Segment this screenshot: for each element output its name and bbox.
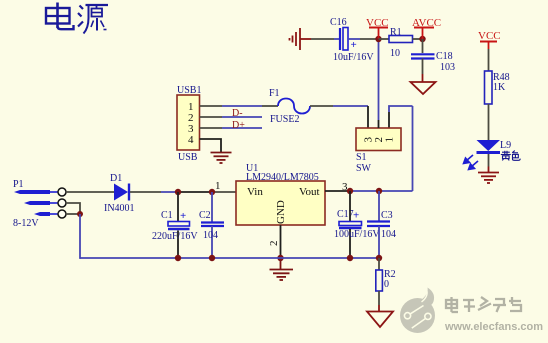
svg-text:VCC: VCC xyxy=(478,30,501,42)
svg-text:+: + xyxy=(180,210,186,222)
svg-text:C3: C3 xyxy=(381,210,393,221)
bottom rail xyxy=(80,257,381,259)
wire P1 pin3 to junction xyxy=(66,213,80,215)
Vout rail xyxy=(350,190,413,192)
svg-text:P1: P1 xyxy=(13,179,24,190)
switch S1 xyxy=(356,128,401,174)
svg-text:1: 1 xyxy=(384,137,396,143)
fuse F1 xyxy=(269,88,310,125)
wire C2 node to U1 pin1 xyxy=(212,191,236,193)
wire fuse to S1 pin3 corner xyxy=(310,105,333,107)
ground sideways left of C16 xyxy=(290,28,312,50)
svg-text:D+: D+ xyxy=(232,120,245,131)
resistor R2 xyxy=(376,258,396,312)
junction C3 R2 bottom xyxy=(376,255,382,261)
title 电源 xyxy=(46,3,108,34)
wire VCC node down to S1 pin2 xyxy=(378,39,380,120)
wire U1 pin2 down xyxy=(280,225,282,258)
svg-text:8-12V: 8-12V xyxy=(13,218,39,229)
resistor R48 xyxy=(485,71,510,104)
wire segment blue to C1 node xyxy=(161,191,178,193)
svg-text:L9: L9 xyxy=(500,140,511,151)
wire USB pin3 D+ xyxy=(200,127,223,129)
LED arrows xyxy=(464,155,479,170)
capacitor C2 xyxy=(199,192,224,258)
svg-text:SW: SW xyxy=(356,163,372,174)
wire down from P1 junction to bottom rail xyxy=(80,214,81,258)
svg-text:+: + xyxy=(353,210,359,222)
diode D1 xyxy=(104,173,135,214)
wire C1 node to C2 node xyxy=(178,191,212,193)
svg-text:Vout: Vout xyxy=(299,186,320,198)
svg-text:D-: D- xyxy=(232,108,243,119)
svg-text:C1: C1 xyxy=(161,210,173,221)
wire R48 to LED xyxy=(488,104,490,140)
svg-text:10uF/16V: 10uF/16V xyxy=(333,52,374,63)
wire USB pin2 D- xyxy=(200,116,223,118)
svg-text:10: 10 xyxy=(390,48,400,59)
ground USB pin4 xyxy=(211,153,232,164)
label yellow 黄色 xyxy=(501,151,520,161)
watermark logo circle xyxy=(400,288,435,334)
connector USB1 xyxy=(177,85,201,163)
svg-text:R1: R1 xyxy=(390,27,402,38)
svg-text:1K: 1K xyxy=(493,82,506,93)
svg-text:0: 0 xyxy=(384,279,389,290)
wire P1 pin1 to D1 xyxy=(66,191,114,193)
wire USB pin1 xyxy=(200,105,223,107)
svg-text:D1: D1 xyxy=(110,173,122,184)
wire down to S1 pin3 xyxy=(367,106,369,128)
watermark text 电子发烧友 xyxy=(446,297,521,312)
svg-text:2: 2 xyxy=(268,241,280,247)
capacitor C17 xyxy=(334,191,380,258)
svg-text:103: 103 xyxy=(440,62,455,73)
junction U1 GND on bottom rail xyxy=(277,255,283,261)
svg-text:4: 4 xyxy=(188,134,194,146)
wire S1 pin1 up and right xyxy=(388,112,390,128)
svg-text:C16: C16 xyxy=(330,17,347,28)
junction C1 bottom xyxy=(175,255,181,261)
power VCC right xyxy=(478,30,501,49)
svg-text:C18: C18 xyxy=(436,51,453,62)
junction C1 top xyxy=(175,189,181,195)
capacitor C18 xyxy=(411,39,455,82)
junction C17 top xyxy=(347,188,353,194)
capacitor C3 xyxy=(367,191,396,258)
svg-text:FUSE2: FUSE2 xyxy=(270,114,299,125)
wire ground to C16 xyxy=(311,38,334,40)
junction C3 top xyxy=(376,188,382,194)
wire D1 to C1 node xyxy=(130,191,161,193)
ground triangle under C18 xyxy=(411,82,436,94)
capacitor C16 xyxy=(330,17,374,63)
svg-text:C17: C17 xyxy=(337,209,354,220)
wire P1 pin2 to corner xyxy=(66,203,80,214)
junction C2 top xyxy=(209,189,215,195)
svg-text:www.elecfans.com: www.elecfans.com xyxy=(444,321,543,333)
svg-text:C2: C2 xyxy=(199,210,211,221)
ground under U1 xyxy=(270,258,294,280)
svg-text:F1: F1 xyxy=(269,88,280,99)
wire S1 pin1 down to Vout rail xyxy=(412,106,414,191)
capacitor C1 xyxy=(152,192,198,258)
wire C16 to VCC node xyxy=(348,38,360,40)
junction VCC node xyxy=(375,36,381,42)
svg-text:GND: GND xyxy=(275,200,287,224)
svg-text:Vin: Vin xyxy=(247,186,263,198)
junction C17 bottom xyxy=(347,255,353,261)
svg-text:100uF/16V: 100uF/16V xyxy=(334,229,380,240)
svg-text:S1: S1 xyxy=(356,152,367,163)
wire USB pin4 to ground xyxy=(200,139,222,153)
LED L9 xyxy=(477,140,512,173)
svg-text:IN4001: IN4001 xyxy=(104,203,135,214)
power VCC top xyxy=(366,17,389,39)
svg-text:220uF/16V: 220uF/16V xyxy=(152,231,198,242)
regulator U1 xyxy=(236,163,325,225)
ground under LED xyxy=(478,173,499,184)
wire VCC to R48 xyxy=(488,49,490,71)
connector P1 xyxy=(13,179,66,229)
svg-text:USB: USB xyxy=(178,152,198,163)
svg-text:1: 1 xyxy=(215,180,221,192)
power AVCC xyxy=(412,17,441,39)
junction P1 pins 2-3 xyxy=(77,211,83,217)
svg-text:+: + xyxy=(351,39,357,51)
ground triangle under R2 xyxy=(367,312,393,328)
resistor R1 xyxy=(379,27,423,59)
junction AVCC node xyxy=(419,36,425,42)
svg-text:104: 104 xyxy=(203,230,218,241)
wire U1 pin3 to Vout node xyxy=(325,190,350,192)
svg-text:104: 104 xyxy=(381,229,396,240)
junction C2 bottom xyxy=(209,255,215,261)
